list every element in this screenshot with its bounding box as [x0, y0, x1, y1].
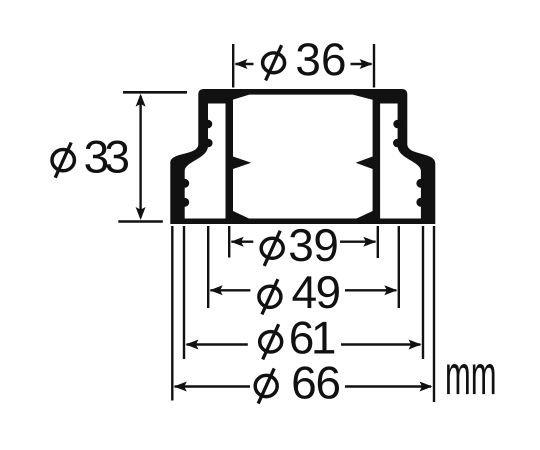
phi39 right arrowhead: [363, 237, 376, 247]
phi33 up arrowhead: [136, 94, 146, 107]
unit label mm: [447, 364, 494, 394]
phi33 down arrowhead: [136, 207, 146, 220]
text 61: [291, 321, 334, 354]
phi glyph for 39: [261, 231, 283, 266]
thread bump upper-left 1: [204, 120, 213, 129]
phi39 left arrowhead: [231, 237, 244, 247]
phi61 left arrowhead: [186, 340, 199, 350]
phi61 right arrowhead: [409, 340, 422, 350]
phi glyph for 61: [260, 324, 282, 359]
thread bump lower-left 2: [180, 198, 189, 207]
thread bump lower-left 1: [180, 179, 189, 188]
phi49 left arrowhead: [210, 285, 223, 295]
dimension phi61: extension lines: [184, 226, 423, 359]
dimension phi36: arrows and shafts: [236, 63, 372, 65]
phi49 right arrowhead: [384, 285, 397, 295]
thread bump lower-right 1: [416, 179, 425, 188]
text 36: [297, 43, 344, 76]
dimension phi66: extension lines: [172, 226, 434, 402]
thread bump lower-right 2: [416, 198, 425, 207]
text 39: [290, 229, 337, 262]
dimension phi36: extension lines: [233, 44, 374, 88]
phi36 right arrowhead: [360, 59, 373, 69]
phi33 bottom tick: [118, 220, 163, 223]
phi glyph for 49: [259, 279, 281, 314]
thread bump upper-right 1: [393, 120, 402, 129]
dimension phi39: arrows and shafts: [231, 240, 375, 242]
thread bump upper-left 2: [204, 139, 213, 148]
dimension phi33: vertical arrow line: [139, 96, 141, 218]
phi66 right arrowhead: [420, 382, 433, 392]
phi66 left arrowhead: [174, 382, 187, 392]
phi33 top tick: [123, 91, 187, 94]
dimension phi49: extension lines: [208, 226, 399, 308]
phi glyph for 66: [255, 368, 277, 403]
dimension phi61: arrows and shafts: [187, 343, 421, 345]
phi glyph for 36: [263, 45, 285, 80]
text 49: [293, 276, 339, 309]
text 66: [294, 366, 340, 399]
dimension phi39: extension lines: [229, 226, 378, 258]
cap cross-section body: [170, 89, 435, 224]
thread bump upper-right 2: [393, 139, 402, 148]
phi36 left arrowhead: [235, 59, 248, 69]
text 33: [85, 141, 128, 174]
phi glyph for 33: [52, 143, 74, 178]
dimension phi66: arrows and shafts: [175, 385, 432, 387]
dimension phi49: arrows and shafts: [210, 289, 396, 291]
